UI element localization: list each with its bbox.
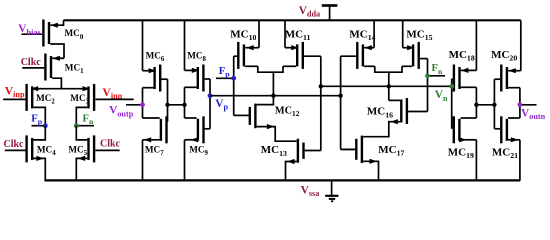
label MC17 bbox=[378, 144, 404, 158]
wire: rail drop to MC11 source bbox=[284, 20, 286, 47]
net label Clkc (MC5 gate) bbox=[100, 138, 121, 149]
wire: input pair common-source node bbox=[33, 88, 87, 90]
net label V_outn bbox=[521, 107, 546, 121]
net label F_p (first stage) bbox=[31, 113, 42, 126]
transistor MC2 (PMOS input, Vinp) bbox=[3, 84, 45, 126]
transistor MC8 (PMOS, Vp inverter) bbox=[185, 65, 211, 92]
transistor MC15 (PMOS, Fn input) bbox=[402, 42, 428, 69]
label MC2 bbox=[36, 93, 55, 106]
label MC3 bbox=[70, 93, 89, 106]
wire: rail drop to MC20 source bbox=[520, 20, 522, 70]
wire: Vssa bottom supply rail bbox=[44, 179, 520, 181]
label MC0 bbox=[65, 28, 84, 41]
wire: Fp gate column (MC10/MC12 gates) bbox=[234, 56, 250, 115]
wire: rail drop to MC14 source bbox=[373, 20, 375, 47]
svg-text:Clkc: Clkc bbox=[100, 138, 121, 149]
net label V_inn bbox=[102, 86, 122, 101]
label MC6 bbox=[146, 51, 165, 64]
label MC12 bbox=[275, 106, 300, 119]
net label Clkc (MC1 gate) bbox=[21, 57, 42, 68]
transistor MC16 (NMOS, Fn input) bbox=[363, 98, 427, 137]
transistor MC21 (NMOS, Voutn inverter) bbox=[494, 116, 520, 143]
wire: rail drop to MC6 source bbox=[142, 20, 144, 70]
label MC5 bbox=[68, 145, 87, 158]
transistor MC1 (PMOS, Clkc switch) bbox=[22, 54, 64, 89]
label MC8 bbox=[187, 51, 206, 64]
wire: MC10/MC11 drain staircase to Vp bbox=[258, 66, 283, 95]
transistor MC12 (NMOS, Fp input) bbox=[250, 96, 297, 142]
wire: MC20/MC21 gate tie bbox=[493, 79, 495, 129]
wire: Vdda top supply rail bbox=[64, 19, 521, 21]
transistor MC0 (PMOS, Vbias) bbox=[22, 20, 65, 59]
transistor MC18 (PMOS, Vn inverter) bbox=[452, 65, 477, 92]
net label V_ssa bbox=[301, 184, 320, 198]
wire: rail drop to MC18 source bbox=[475, 20, 477, 70]
label MC16 bbox=[367, 106, 393, 120]
transistor MC20 (PMOS, Voutn inverter) bbox=[494, 65, 520, 92]
node Vp junction bbox=[271, 94, 275, 98]
node V_p bbox=[208, 79, 213, 129]
net label V_p bbox=[215, 98, 228, 112]
transistor MC9 (NMOS, Vp inverter) bbox=[185, 116, 211, 143]
net label V_dda bbox=[299, 5, 320, 19]
transistor MC4 (NMOS reset, Clkc) bbox=[5, 126, 46, 181]
net label V_bias bbox=[18, 23, 40, 37]
label MC9 bbox=[189, 144, 208, 157]
svg-text:Clkc: Clkc bbox=[21, 57, 42, 68]
wire: MC21 source to rail bbox=[519, 140, 521, 181]
net label V_n bbox=[435, 89, 448, 103]
label MC11 bbox=[285, 28, 311, 42]
wire: rail drop to MC8 source bbox=[184, 20, 186, 70]
wire: MC8/MC9 drain tie bbox=[184, 87, 186, 118]
label MC20 bbox=[491, 49, 517, 63]
transistor MC11 (PMOS, cross-coupled) bbox=[283, 42, 321, 69]
label MC18 bbox=[449, 49, 475, 63]
wire: MC9 source to rail bbox=[184, 140, 186, 181]
node F_p (latch input) bbox=[216, 76, 236, 81]
node Vn line start bbox=[319, 84, 323, 88]
label MC21 bbox=[492, 146, 518, 160]
wire: buffer bridge (MC8/9 drains to MC6/7 gates) bbox=[165, 103, 186, 107]
ground symbol V_ssa bbox=[325, 180, 338, 201]
transistor MC14 (PMOS, cross-coupled) bbox=[341, 42, 375, 69]
transistor MC19 (NMOS, Vn inverter) bbox=[454, 116, 477, 143]
transistor MC13 (NMOS, cross-coupled) bbox=[286, 139, 321, 181]
net label F_n (first stage) bbox=[83, 113, 94, 126]
net label F_n (latch) bbox=[432, 63, 443, 76]
wire: Vp cross column (MC14/MC17 gates) bbox=[341, 56, 356, 149]
wire: rail drop to MC15 source bbox=[402, 20, 404, 47]
label MC1 bbox=[65, 63, 84, 76]
net label Clkc (MC4 gate) bbox=[4, 139, 25, 150]
power symbol V_dda bbox=[322, 5, 338, 20]
wire: buffer bridge right (MC18/19 drains to MC20/21 gates) bbox=[474, 103, 496, 107]
wire: MC19 source to rail bbox=[475, 140, 477, 181]
net label F_p (latch) bbox=[219, 66, 230, 79]
transistor MC3 (PMOS input, Vinn) bbox=[76, 84, 133, 126]
wire: MC18/MC19 drain tie bbox=[475, 87, 477, 118]
node V_n bbox=[449, 79, 454, 129]
wire: Vn gate column (MC11/MC13 gates) bbox=[320, 56, 322, 150]
wire: MC7 source to rail bbox=[142, 140, 144, 181]
transistor MC17 (NMOS, cross-coupled) bbox=[341, 136, 379, 181]
transistor MC7 (NMOS, Voutp inverter) bbox=[143, 116, 168, 143]
node F_n (first stage output) bbox=[74, 123, 94, 128]
transistor MC5 (NMOS reset, Clkc) bbox=[76, 126, 119, 181]
transistor MC6 (PMOS, Voutp inverter) bbox=[143, 65, 168, 92]
net label V_inp bbox=[5, 84, 25, 99]
wire: Vn latch bus bbox=[321, 85, 452, 87]
label MC13 bbox=[261, 144, 287, 158]
node V_outp bbox=[126, 88, 145, 118]
label MC14 bbox=[349, 28, 375, 42]
transistor MC10 (PMOS, Fp input) bbox=[234, 42, 259, 69]
wire: Vp latch bus bbox=[210, 95, 341, 97]
label MC19 bbox=[448, 146, 474, 160]
svg-text:Clkc: Clkc bbox=[4, 139, 25, 150]
node F_p (first stage output) bbox=[32, 123, 48, 128]
label MC10 bbox=[230, 28, 256, 42]
net label V_outp bbox=[109, 105, 134, 119]
node Vn junction bbox=[387, 84, 391, 88]
label MC4 bbox=[37, 144, 56, 157]
node Vp line end bbox=[338, 94, 342, 98]
node V_outn bbox=[518, 88, 537, 118]
wire: MC14/MC15 drain staircase to Vn bbox=[375, 66, 402, 100]
label MC7 bbox=[145, 144, 164, 157]
wire: rail drop to MC10 source bbox=[258, 20, 260, 47]
label MC15 bbox=[406, 28, 432, 42]
wire: MC6/MC7 gate tie bbox=[167, 79, 169, 122]
node F_n (latch input) bbox=[425, 59, 445, 112]
